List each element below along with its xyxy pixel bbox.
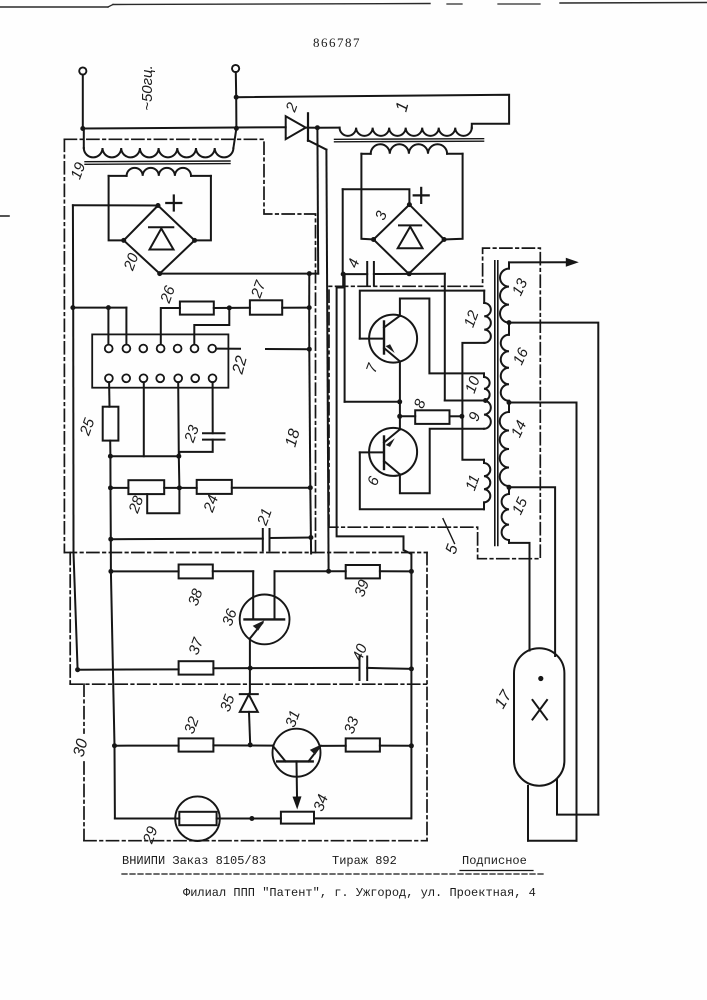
svg-text:Подписное: Подписное [462, 854, 527, 868]
svg-text:Филиал ППП "Патент", г. Ужгоро: Филиал ППП "Патент", г. Ужгород, ул. Про… [183, 886, 536, 900]
svg-text:~50гц.: ~50гц. [139, 65, 156, 111]
svg-text:Тираж 892: Тираж 892 [332, 854, 397, 868]
svg-text:ВНИИПИ Заказ 8105/83: ВНИИПИ Заказ 8105/83 [122, 854, 266, 868]
svg-text:866787: 866787 [313, 35, 361, 50]
